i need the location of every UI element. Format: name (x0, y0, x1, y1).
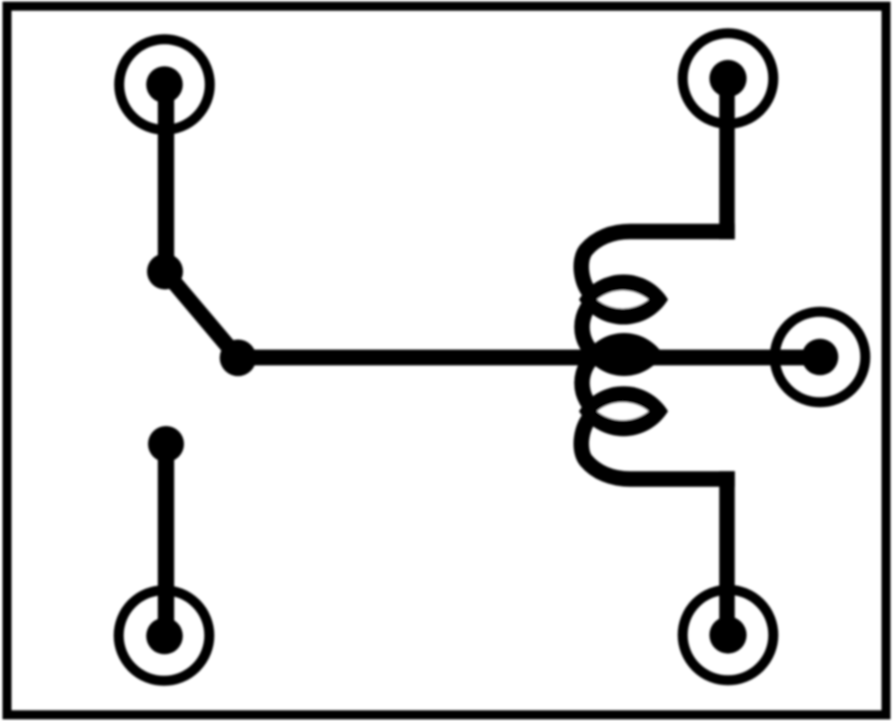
coil turn 3 loop (open leaf) (579, 386, 668, 436)
coil center turn 2 loop (filled, on common net) (585, 333, 663, 376)
pad P1 (top-left terminal, NC contact) (119, 39, 210, 130)
coil left crescent arc (turn 2-3) (582, 352, 600, 414)
wire: coil bottom corner down to pad P4 (719, 471, 735, 635)
pad P5 (right terminal, common) (775, 312, 866, 403)
pad P2 (bottom-left terminal, NO contact) (119, 590, 210, 681)
junction dot: switch pivot node (147, 254, 183, 290)
junction dot: switch common node (220, 340, 257, 377)
wire: NO contact down to pad P2 (158, 444, 174, 636)
junction dot: NO contact (open) (148, 426, 184, 462)
coil turn 1 loop (open leaf) (579, 274, 668, 324)
wire: pad P1 down to switch pivot (158, 85, 174, 272)
wire: pad P3 down to coil top corner (719, 79, 735, 240)
coil top lead and entry arc (581, 232, 734, 297)
switch blade (relay armature) (165, 272, 238, 359)
wire: switch common to pad P5 (horizontal net) (238, 350, 820, 366)
relay coil L1 (579, 232, 735, 480)
pad P3 (top-right terminal, coil end A) (683, 33, 774, 124)
coil bottom exit arc and lead (581, 414, 734, 479)
coil left crescent arc (turn 1-2) (582, 296, 600, 358)
pad P4 (bottom-right terminal, coil end B) (683, 590, 774, 681)
